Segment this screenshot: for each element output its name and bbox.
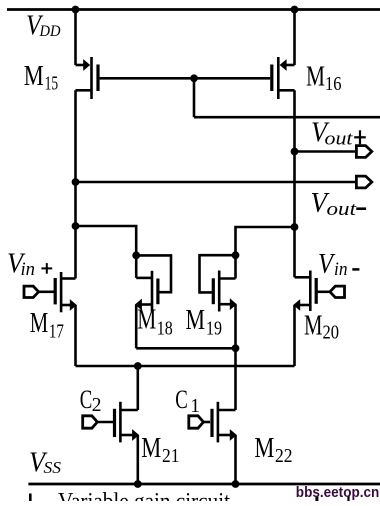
svg-text:M: M: [306, 61, 325, 92]
svg-text:in: in: [21, 260, 36, 280]
svg-text:M: M: [141, 433, 161, 464]
svg-text:SS: SS: [44, 458, 62, 477]
svg-text:V: V: [318, 249, 336, 280]
svg-text:20: 20: [323, 322, 340, 344]
svg-text:DD: DD: [39, 23, 61, 40]
svg-text:18: 18: [157, 317, 173, 339]
svg-text:17: 17: [49, 321, 64, 343]
svg-text:M: M: [304, 310, 323, 341]
svg-text:1: 1: [190, 396, 200, 417]
svg-text:M: M: [24, 61, 44, 92]
svg-text:C: C: [175, 385, 188, 414]
svg-text:22: 22: [275, 445, 293, 467]
svg-text:Variable gain circuit: Variable gain circuit: [58, 489, 231, 502]
svg-text:16: 16: [325, 73, 342, 95]
svg-text:M: M: [30, 308, 49, 339]
svg-text:C: C: [80, 385, 93, 414]
svg-text:out: out: [327, 200, 358, 220]
svg-text:15: 15: [45, 73, 59, 95]
svg-text:bbs.eetop.cn: bbs.eetop.cn: [296, 484, 380, 501]
svg-text:2: 2: [92, 395, 102, 416]
svg-text:out: out: [325, 130, 354, 150]
svg-text:M: M: [137, 305, 156, 336]
svg-text:M: M: [186, 305, 206, 336]
svg-text:21: 21: [162, 445, 180, 467]
svg-text:M: M: [254, 433, 274, 464]
svg-text:in: in: [334, 260, 348, 280]
svg-text:19: 19: [206, 318, 222, 340]
